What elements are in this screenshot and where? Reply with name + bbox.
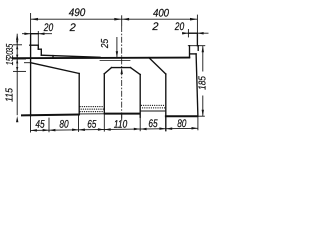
- svg-text:35: 35: [5, 43, 16, 51]
- svg-text:20: 20: [43, 22, 54, 34]
- svg-text:15: 15: [5, 57, 16, 65]
- svg-text:400: 400: [153, 7, 170, 19]
- svg-text:2: 2: [69, 22, 76, 34]
- svg-text:2: 2: [151, 21, 158, 33]
- svg-text:65: 65: [87, 119, 97, 131]
- svg-text:115: 115: [4, 88, 16, 102]
- svg-text:45: 45: [35, 119, 45, 131]
- svg-text:65: 65: [148, 118, 158, 130]
- svg-text:25: 25: [99, 39, 111, 49]
- svg-text:80: 80: [177, 118, 187, 130]
- svg-text:80: 80: [59, 119, 69, 131]
- svg-text:110: 110: [114, 119, 128, 131]
- svg-text:490: 490: [69, 7, 86, 19]
- svg-text:185: 185: [197, 76, 209, 90]
- svg-text:20: 20: [174, 21, 185, 33]
